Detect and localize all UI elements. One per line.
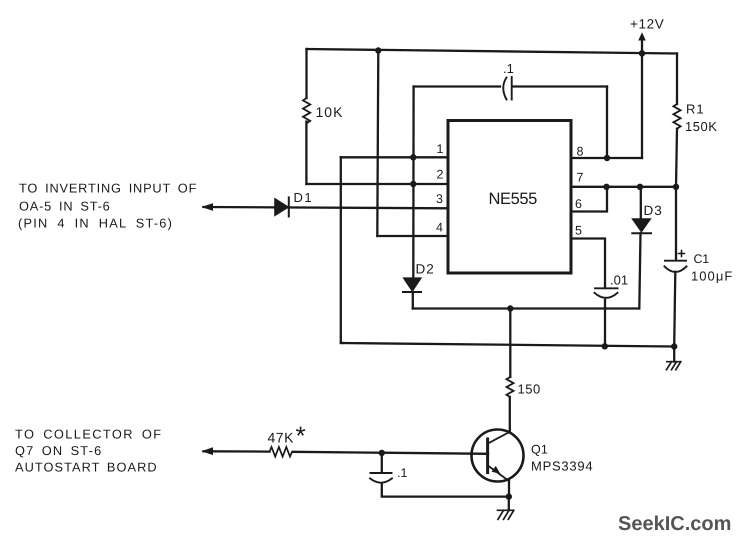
svg-text:100μF: 100μF — [691, 269, 733, 284]
wire cap loop top right — [513, 85, 607, 87]
svg-text:R1: R1 — [686, 102, 705, 117]
capacitor .1 top (right plate) — [511, 77, 513, 100]
svg-text:TO COLLECTOR OF: TO COLLECTOR OF — [15, 427, 162, 442]
wire pin 7 horizontal — [571, 186, 676, 188]
arrow head (to inverting input) — [202, 203, 214, 211]
capacitor .1 bottom (bottom curved plate) — [370, 478, 392, 482]
capacitor .1 bottom (top plate) — [371, 472, 392, 474]
resistor R1 — [673, 104, 680, 129]
svg-text:10K: 10K — [316, 104, 344, 120]
wire cap loop right vertical to pin 8 — [606, 87, 608, 159]
wire D1 line (pin 3) — [204, 207, 449, 208]
power +12V arrow — [641, 39, 643, 53]
capacitor C1 (plus sign) — [679, 251, 685, 257]
svg-text:.1: .1 — [397, 466, 407, 480]
svg-text:MPS3394: MPS3394 — [531, 459, 593, 474]
wire cap riser (cap loop to D2) — [412, 87, 415, 279]
transistor Q1 (collector diagonal) — [488, 432, 510, 444]
node pin 8 / cap loop junction — [604, 155, 610, 161]
resistor 47K — [270, 447, 293, 457]
wire D3 top lead — [640, 187, 642, 219]
svg-text:D2: D2 — [416, 262, 435, 277]
svg-text:Q1: Q1 — [531, 443, 548, 457]
wire bottom bus — [341, 343, 674, 347]
svg-text:5: 5 — [575, 223, 582, 237]
node mid bus / 150 resistor junction — [507, 305, 513, 311]
svg-text:D3: D3 — [644, 203, 663, 218]
node top rail / pin4 riser junction — [375, 47, 381, 53]
diode D1 (cathode bar) — [288, 197, 290, 216]
wire 10K bottom lead — [305, 122, 307, 185]
svg-text:150K: 150K — [685, 119, 717, 134]
svg-text:3: 3 — [436, 192, 443, 206]
capacitor .1 top (left curved plate) — [503, 78, 506, 100]
wire cap .1 top lead — [381, 453, 383, 473]
wire cap .01 bottom lead to bottom bus — [604, 300, 606, 346]
svg-text:C1: C1 — [694, 252, 710, 266]
wire D2 bottom lead — [412, 292, 414, 309]
node base wire / cap .1 junction — [379, 450, 385, 456]
transistor Q1 (base bar) — [486, 439, 489, 473]
node bottom bus / .01 junction — [602, 343, 608, 349]
wire pin 1 horizontal — [341, 156, 448, 158]
ground (right) — [667, 362, 681, 370]
capacitor .01 (top plate) — [595, 287, 618, 289]
transistor Q1 (emitter arrowhead) — [492, 466, 501, 474]
transistor Q1 (circle) — [472, 430, 524, 482]
svg-text:(PIN 4 IN HAL ST-6): (PIN 4 IN HAL ST-6) — [18, 215, 173, 230]
svg-text:8: 8 — [577, 145, 584, 159]
svg-text:+12V: +12V — [630, 17, 664, 32]
node pin 7 / R1-C1 junction — [673, 184, 679, 190]
ground (under emitter) — [498, 510, 514, 519]
node pin 1 / riser junction — [410, 154, 416, 160]
wire mid bus (D2 to D3) — [413, 307, 640, 309]
arrow head (to collector of Q7) — [202, 447, 214, 455]
svg-text:1: 1 — [437, 142, 444, 156]
diode D3 (triangle) — [632, 219, 650, 232]
capacitor C1 (top plate) — [665, 260, 686, 262]
node top rail / +12V junction — [639, 50, 645, 56]
wire riser top rail to pin 4 — [377, 51, 378, 237]
wire C1 bottom lead — [674, 272, 675, 347]
node pin 2 / riser junction — [410, 181, 416, 187]
node pin 7 / D3 junction — [637, 184, 643, 190]
svg-text:Q7 ON ST-6: Q7 ON ST-6 — [15, 443, 102, 458]
wire D3 bottom lead to mid bus — [639, 233, 640, 308]
wire 150 bottom lead to transistor collector — [509, 397, 511, 432]
svg-text:.01: .01 — [610, 273, 628, 288]
svg-text:TO INVERTING INPUT OF: TO INVERTING INPUT OF — [19, 180, 197, 195]
IC NE555 timer (box) — [448, 121, 571, 274]
wire top rail — [307, 49, 678, 54]
svg-text:SeekIC.com: SeekIC.com — [618, 513, 731, 535]
svg-text:150: 150 — [518, 382, 541, 397]
wire pin 2 horizontal — [306, 183, 448, 185]
svg-text:47K: 47K — [268, 430, 295, 446]
wire R1 top lead (corner down from top rail) — [676, 54, 678, 105]
svg-text:AUTOSTART BOARD: AUTOSTART BOARD — [15, 460, 158, 475]
wire +12V vertical to pin 8 — [641, 53, 643, 158]
wire ground stub under emitter — [508, 497, 510, 510]
wire emitter down — [508, 481, 510, 497]
wire 10K top lead — [305, 49, 307, 98]
wire pin 8 horizontal — [571, 157, 642, 159]
transistor Q1 (emitter diagonal) — [488, 466, 509, 482]
diode D1 (triangle) — [275, 199, 289, 216]
wire 150 resistor top lead — [509, 309, 511, 378]
svg-text:6: 6 — [575, 197, 582, 211]
wire pin 5 horizontal and drop to cap .01 — [571, 239, 605, 289]
capacitor C1 (bottom curved plate) — [665, 266, 687, 272]
diode D2 (cathode bar) — [403, 291, 421, 293]
node emitter / cap wire / ground junction — [506, 493, 512, 499]
wire cap .1 bottom lead and wire to emitter — [382, 484, 509, 497]
wire cap loop top left — [414, 85, 500, 87]
svg-text:NE555: NE555 — [489, 190, 538, 208]
node bottom bus / C1 / ground junction — [671, 343, 677, 349]
wire pin 6 horizontal and riser up to pin 7 — [571, 187, 607, 212]
diode D2 (triangle) — [404, 278, 422, 291]
wire C1 top lead — [675, 187, 677, 260]
svg-text:2: 2 — [437, 167, 444, 181]
wire R1 bottom lead to pin7 node — [676, 129, 677, 187]
wire pin 4 horizontal — [377, 235, 448, 237]
svg-text:7: 7 — [577, 170, 584, 184]
svg-text:D1: D1 — [294, 190, 314, 205]
capacitor .01 (bottom curved plate) — [595, 293, 618, 298]
svg-text:*: * — [296, 421, 306, 451]
svg-text:.1: .1 — [503, 61, 514, 76]
wire base horizontal (47K line) — [204, 451, 489, 454]
diode D3 (cathode bar) — [632, 232, 651, 234]
svg-text:OA-5 IN ST-6: OA-5 IN ST-6 — [19, 198, 111, 213]
node pin 7 / pin 6 riser junction — [603, 184, 609, 190]
resistor 150 — [507, 377, 514, 397]
wire pin1 corner down to bottom bus — [341, 157, 343, 343]
svg-text:4: 4 — [436, 221, 443, 235]
wire ground stub right — [673, 347, 675, 362]
resistor 10K — [303, 98, 310, 123]
